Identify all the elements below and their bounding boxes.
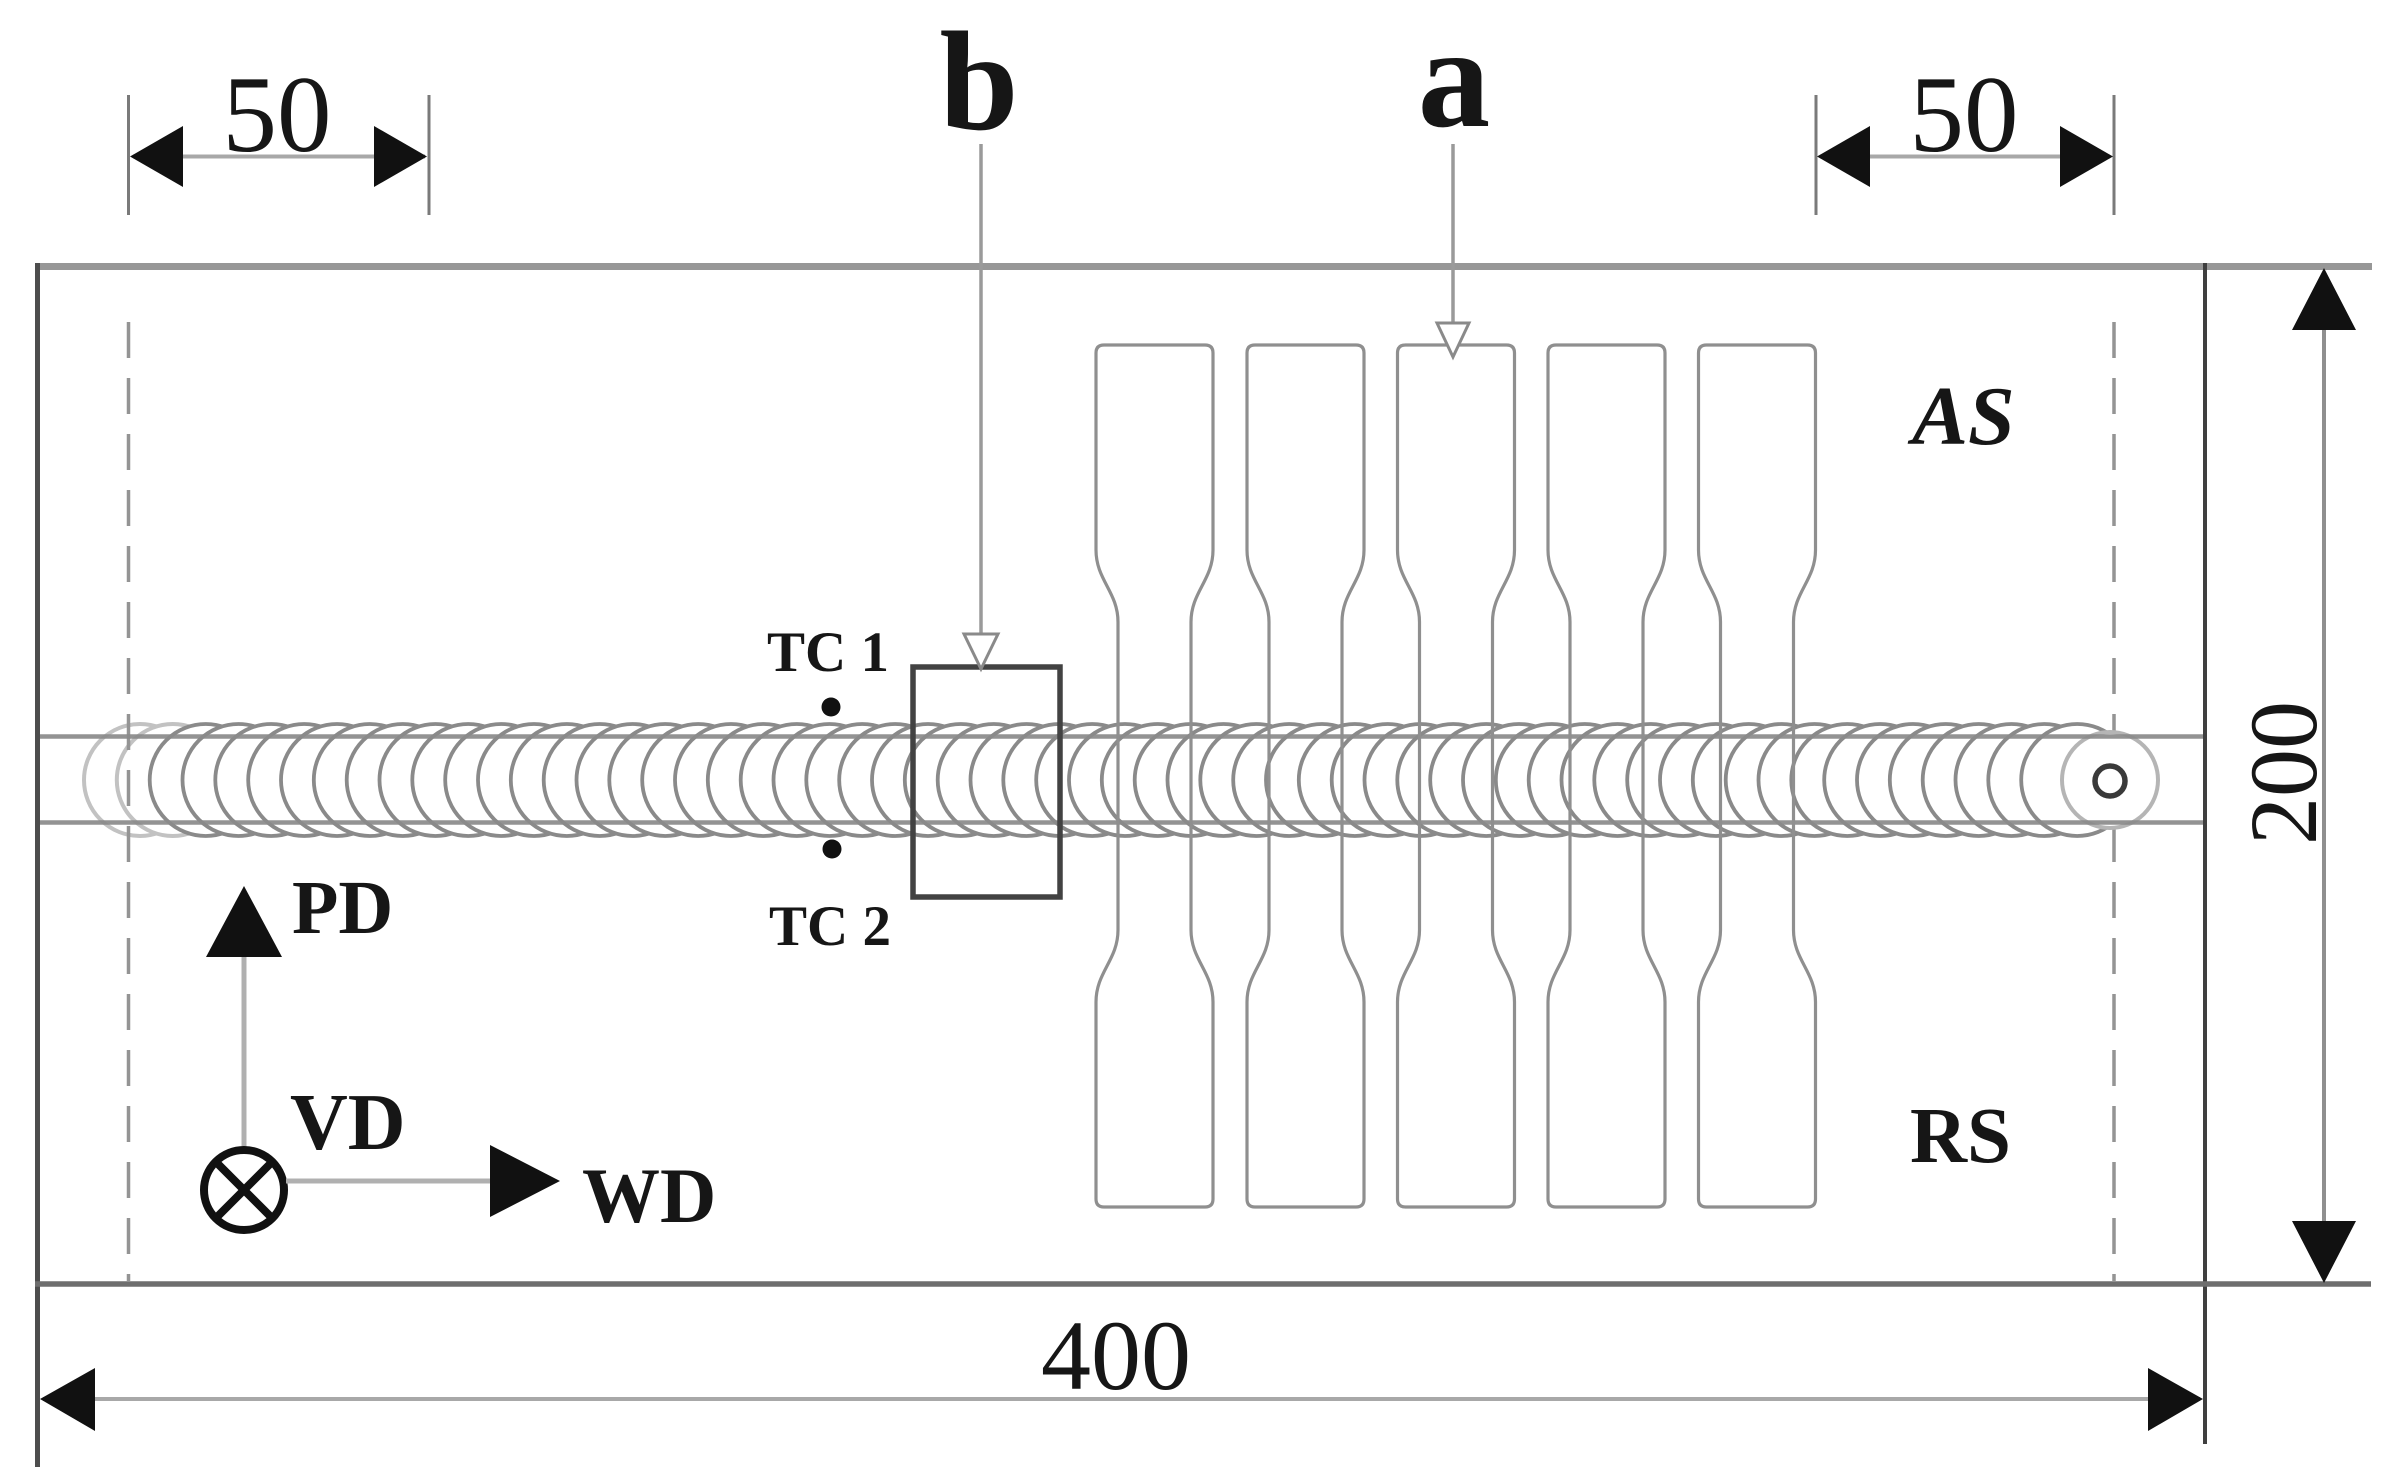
dimension 200 right side: dimension line with arrowheads <box>2292 268 2356 1283</box>
tensile specimen 5 (a) <box>1699 345 1816 1207</box>
svg-text:WD: WD <box>582 1152 716 1239</box>
thermocouple dot TC1 <box>822 698 841 717</box>
macro/metallographic specimen b rectangle <box>913 667 1060 897</box>
tensile specimen 4 (a) <box>1548 345 1665 1207</box>
svg-text:AS: AS <box>1907 370 2015 463</box>
dimension 50 left: dimension line with arrowheads <box>130 126 427 187</box>
weld zone upper boundary line <box>37 734 2205 739</box>
svg-text:50: 50 <box>1910 54 2019 175</box>
svg-text:TC 2: TC 2 <box>769 895 891 958</box>
leader line a with open arrowhead <box>1437 144 1469 357</box>
weld zone lower boundary line <box>37 820 2205 825</box>
plate left border <box>35 263 40 1467</box>
leader line b with open arrowhead <box>964 144 998 669</box>
cut line right (dashed) <box>2112 322 2116 1281</box>
axis VD symbol (circle with X, into page) <box>204 1150 284 1230</box>
weld seam bead arcs <box>84 724 2158 836</box>
thermocouple dot TC2 <box>823 840 842 859</box>
plate bottom border <box>35 1281 2371 1287</box>
svg-text:PD: PD <box>292 866 393 950</box>
tensile specimen 1 (a) <box>1096 345 1213 1207</box>
svg-text:TC 1: TC 1 <box>767 621 889 684</box>
tensile specimen 2 (a) <box>1247 345 1364 1207</box>
svg-text:200: 200 <box>2230 701 2337 845</box>
axis WD arrow <box>286 1145 560 1217</box>
svg-text:VD: VD <box>290 1079 406 1167</box>
tensile specimen 3 (a) <box>1398 345 1515 1207</box>
axis PD arrow <box>206 886 282 1166</box>
dimension 400 bottom: dimension line with arrowheads <box>40 1368 2203 1431</box>
cut line left (dashed) <box>127 322 131 1281</box>
plate top border <box>37 263 2372 270</box>
svg-text:b: b <box>940 2 1019 160</box>
dimension 50 right: extension lines <box>1816 95 2114 215</box>
svg-text:RS: RS <box>1910 1093 2011 1180</box>
svg-text:50: 50 <box>223 54 332 175</box>
plate right border <box>2203 263 2207 1444</box>
svg-text:a: a <box>1418 0 1491 158</box>
svg-text:400: 400 <box>1041 1300 1191 1411</box>
dimension 50 left: extension lines <box>129 95 430 215</box>
dimension 50 right: dimension line with arrowheads <box>1817 126 2113 187</box>
keyhole exit hole <box>2095 766 2125 796</box>
